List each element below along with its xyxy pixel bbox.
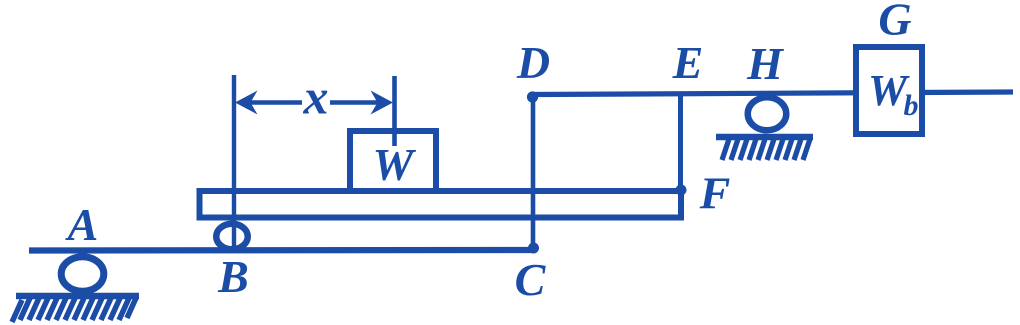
wire: upper line D-E-H-G	[533, 92, 1013, 95]
ground line under A	[16, 293, 139, 300]
beam (platform) B-F	[200, 191, 682, 218]
ground line under H	[716, 134, 813, 141]
counterweight box G (Wb)	[856, 47, 922, 134]
node F	[676, 185, 687, 196]
roller A	[61, 257, 104, 292]
svg-text:A: A	[65, 199, 99, 250]
svg-text:F: F	[699, 168, 731, 219]
svg-text:C: C	[515, 254, 547, 305]
svg-text:E: E	[672, 37, 704, 88]
svg-text:x: x	[303, 69, 329, 125]
wire: vertical into W box	[392, 76, 397, 146]
svg-text:H: H	[746, 38, 784, 89]
weight box W	[350, 131, 436, 191]
ground hatching under H	[722, 139, 810, 160]
svg-text:b: b	[904, 89, 919, 122]
svg-text:B: B	[217, 251, 249, 302]
svg-text:W: W	[373, 139, 417, 190]
dimension arrow x: left shaft	[247, 100, 302, 105]
node D	[527, 91, 538, 102]
wire: vertical through B	[232, 75, 236, 251]
dimension arrow x: right shaft	[330, 100, 378, 105]
svg-text:G: G	[878, 0, 911, 45]
node C	[528, 243, 539, 254]
roller B	[216, 224, 248, 250]
ground hatching under A	[12, 298, 136, 322]
wire: link E-F vertical	[678, 93, 683, 190]
roller H	[748, 97, 787, 130]
wire: link C-D vertical	[531, 97, 536, 248]
svg-text:D: D	[516, 37, 550, 88]
dimension arrow x: right head	[371, 91, 394, 115]
dimension arrow x: left head	[235, 91, 258, 115]
wire: lower lever line A-B-C	[29, 247, 533, 254]
